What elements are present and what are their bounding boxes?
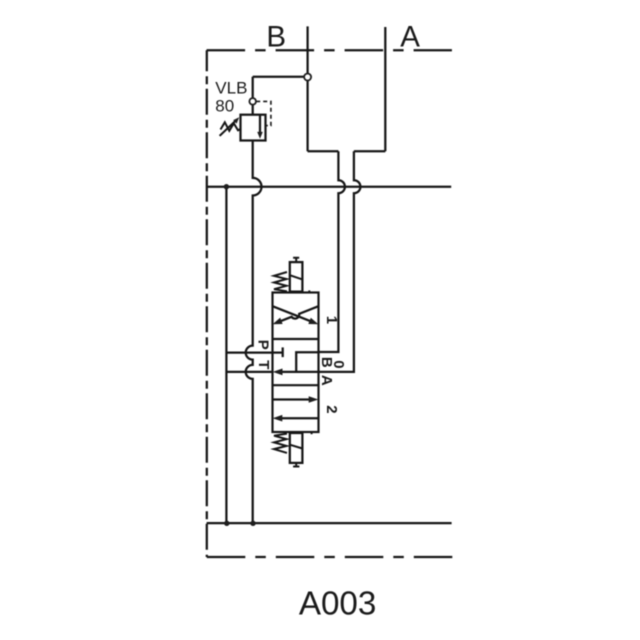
svg-text:0: 0 xyxy=(330,360,347,368)
svg-text:A003: A003 xyxy=(299,586,377,623)
svg-text:A: A xyxy=(400,20,420,53)
svg-text:P: P xyxy=(255,340,272,350)
svg-text:VLB: VLB xyxy=(215,79,247,98)
svg-text:A: A xyxy=(318,375,335,386)
svg-text:B: B xyxy=(266,20,286,53)
svg-text:80: 80 xyxy=(215,97,234,116)
svg-text:2: 2 xyxy=(323,405,340,413)
svg-text:T: T xyxy=(255,360,272,369)
svg-text:1: 1 xyxy=(323,316,340,324)
